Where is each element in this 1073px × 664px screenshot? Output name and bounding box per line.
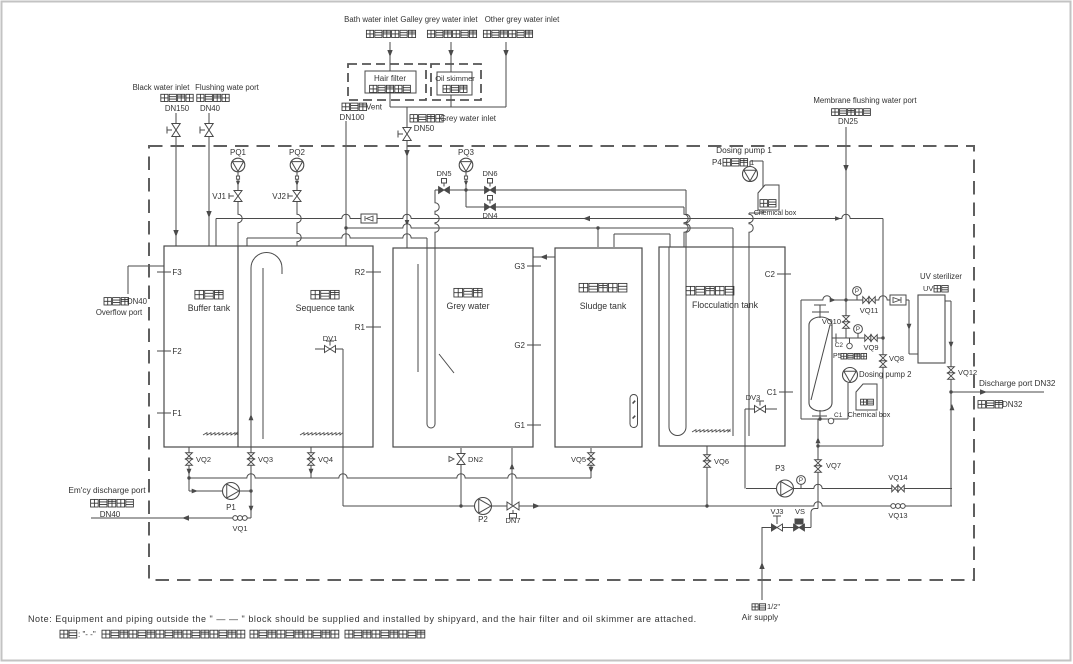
svg-text:VQ7: VQ7: [826, 461, 841, 470]
svg-text:DN2: DN2: [468, 455, 483, 464]
svg-text:DN6: DN6: [482, 169, 497, 178]
svg-text:1: 1: [750, 158, 754, 167]
svg-text:P: P: [856, 326, 860, 333]
svg-text:DN7: DN7: [505, 516, 520, 525]
svg-text:Oil skimmer: Oil skimmer: [435, 74, 475, 83]
svg-text:G2: G2: [514, 341, 525, 350]
svg-text:P4: P4: [712, 158, 722, 167]
svg-text:PQ1: PQ1: [230, 148, 247, 157]
svg-text:VQ4: VQ4: [318, 455, 333, 464]
svg-text:Flocculation tank: Flocculation tank: [692, 300, 759, 310]
svg-text:Hair filter: Hair filter: [374, 74, 406, 83]
svg-text:Vent: Vent: [366, 103, 383, 112]
svg-text:Membrane flushing water port: Membrane flushing water port: [813, 96, 917, 105]
svg-text:DV1: DV1: [323, 334, 338, 343]
svg-text:VJ1: VJ1: [212, 192, 226, 201]
svg-text:DN40: DN40: [127, 297, 148, 306]
svg-text:: "- -": : "- -": [78, 630, 96, 639]
svg-text:Chemical box: Chemical box: [754, 210, 797, 217]
svg-text:P5: P5: [833, 353, 842, 360]
svg-text:DN50: DN50: [414, 124, 435, 133]
svg-text:VQ9: VQ9: [863, 343, 878, 352]
svg-text:VQ2: VQ2: [196, 455, 211, 464]
svg-text:UV sterilizer: UV sterilizer: [920, 272, 962, 281]
svg-text:G1: G1: [514, 421, 525, 430]
svg-text:Chemical box: Chemical box: [848, 412, 891, 419]
svg-text:F1: F1: [172, 409, 182, 418]
svg-text:Other grey water inlet: Other grey water inlet: [485, 15, 560, 24]
svg-text:Overflow port: Overflow port: [96, 308, 143, 317]
svg-text:Bath water inlet: Bath water inlet: [344, 15, 399, 24]
svg-text:Sequence tank: Sequence tank: [296, 303, 355, 313]
svg-text:DN40: DN40: [100, 510, 121, 519]
svg-text:Dosing pump 1: Dosing pump 1: [716, 145, 772, 155]
svg-text:DN4: DN4: [482, 211, 497, 220]
svg-text:1/2": 1/2": [767, 602, 780, 611]
svg-text:VQ6: VQ6: [714, 457, 729, 466]
svg-text:PQ2: PQ2: [289, 148, 306, 157]
svg-text:VQ3: VQ3: [258, 455, 273, 464]
svg-text:C2: C2: [835, 342, 844, 349]
svg-text:Dosing pump 2: Dosing pump 2: [859, 370, 911, 379]
svg-text:DN150: DN150: [165, 104, 190, 113]
svg-text:Sludge tank: Sludge tank: [580, 301, 627, 311]
svg-text:F3: F3: [172, 268, 182, 277]
svg-text:Galley grey water inlet: Galley grey water inlet: [400, 15, 478, 24]
svg-text:VQ11: VQ11: [860, 306, 879, 315]
svg-text:DN40: DN40: [200, 104, 221, 113]
svg-text:P: P: [855, 288, 859, 295]
svg-text:C1: C1: [834, 412, 843, 419]
svg-text:P2: P2: [478, 515, 488, 524]
svg-text:P1: P1: [226, 503, 236, 512]
svg-text:DN25: DN25: [838, 117, 859, 126]
svg-text:VQ14: VQ14: [888, 473, 907, 482]
svg-text:G3: G3: [514, 262, 525, 271]
svg-text:Grey water inlet: Grey water inlet: [440, 114, 497, 123]
svg-text:Buffer tank: Buffer tank: [188, 303, 231, 313]
svg-text:P3: P3: [775, 464, 785, 473]
svg-text:VQ10: VQ10: [822, 317, 841, 326]
svg-text:VQ1: VQ1: [232, 524, 247, 533]
svg-text:Note: Equipment and piping out: Note: Equipment and piping outside the "…: [28, 614, 697, 624]
svg-text:P: P: [799, 477, 803, 484]
svg-text:Air supply: Air supply: [742, 612, 779, 622]
svg-text:C2: C2: [765, 270, 776, 279]
svg-text:Black water inlet: Black water inlet: [133, 83, 191, 92]
svg-text:Discharge port DN32: Discharge port DN32: [979, 379, 1056, 388]
svg-text:VQ12: VQ12: [958, 368, 977, 377]
svg-text:Grey water: Grey water: [446, 301, 489, 311]
svg-text:DV3: DV3: [746, 393, 761, 402]
svg-text:R1: R1: [355, 323, 366, 332]
svg-text:R2: R2: [355, 268, 366, 277]
svg-text:PQ3: PQ3: [458, 148, 475, 157]
svg-text:VJ3: VJ3: [771, 507, 784, 516]
svg-text:DN100: DN100: [340, 113, 365, 122]
svg-text:VJ2: VJ2: [272, 192, 286, 201]
svg-text:VQ5: VQ5: [571, 455, 586, 464]
svg-text:VQ8: VQ8: [889, 354, 904, 363]
svg-text:Flushing wate port: Flushing wate port: [195, 83, 260, 92]
svg-text:C1: C1: [767, 388, 778, 397]
svg-text:UV: UV: [923, 284, 933, 293]
svg-text:F2: F2: [172, 347, 182, 356]
svg-text:DN32: DN32: [1002, 400, 1023, 409]
svg-text:VQ13: VQ13: [888, 511, 907, 520]
svg-text:VS: VS: [795, 507, 805, 516]
svg-text:DN5: DN5: [436, 169, 451, 178]
svg-text:Em'cy discharge port: Em'cy discharge port: [68, 485, 146, 495]
